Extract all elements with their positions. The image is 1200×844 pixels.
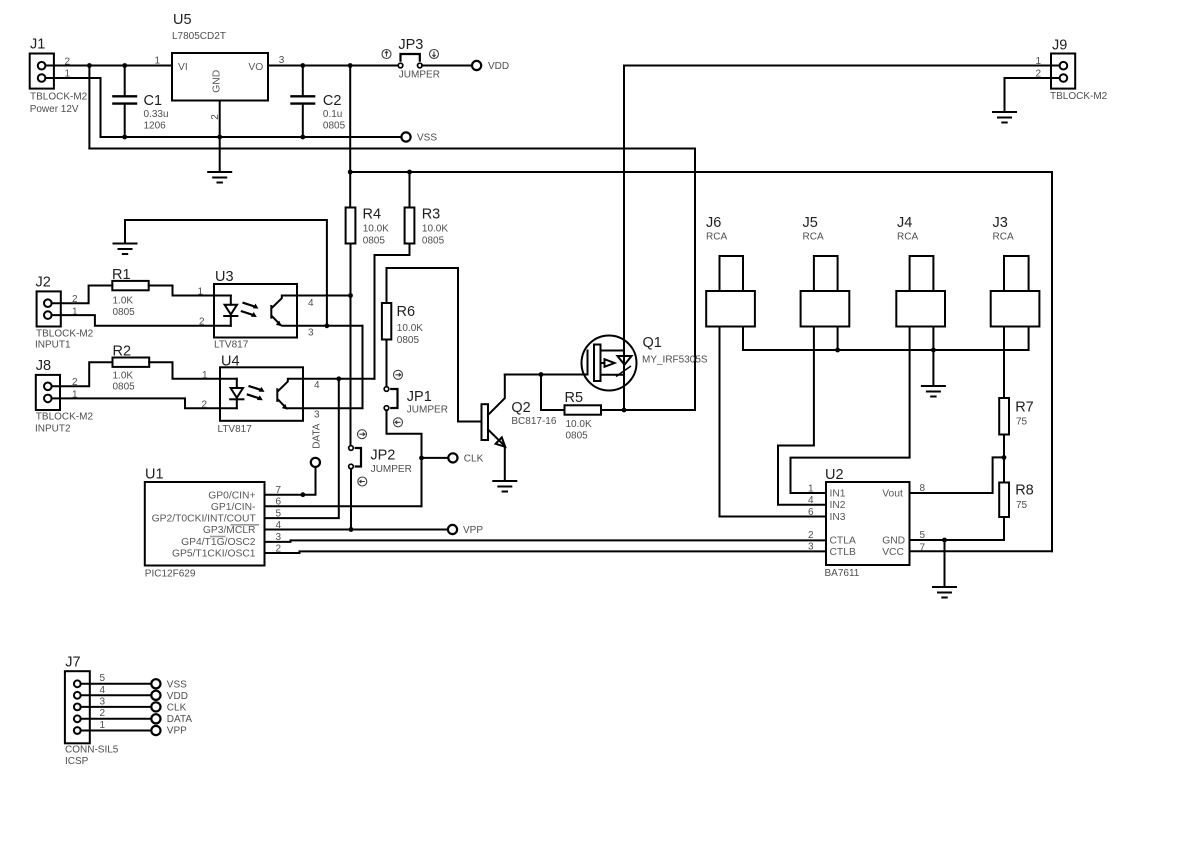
wire R2 to U4 pin1	[149, 362, 220, 379]
svg-text:IN3: IN3	[830, 512, 846, 523]
wire +12V down to Q1 source	[694, 149, 696, 411]
transistor Q1	[582, 335, 708, 391]
IC U2 BA7611	[825, 467, 910, 579]
svg-text:0.1u: 0.1u	[323, 109, 342, 120]
svg-text:J2: J2	[36, 275, 51, 291]
jumper JP1 right-arrow marker	[394, 370, 403, 379]
svg-text:MY_IRF5305S: MY_IRF5305S	[642, 354, 708, 365]
svg-text:JP2: JP2	[370, 447, 395, 463]
wire Q1 drain rail	[623, 66, 625, 411]
svg-text:1: 1	[99, 720, 105, 731]
svg-text:4: 4	[275, 520, 281, 531]
junction +5V tap	[348, 63, 353, 68]
svg-text:U5: U5	[173, 12, 192, 28]
junction J5 shield	[835, 348, 840, 353]
svg-text:10.0K: 10.0K	[566, 419, 592, 430]
wire U5 GND pin down	[219, 101, 221, 172]
node VDD at J7	[151, 691, 188, 702]
resistor R8	[999, 482, 1034, 517]
svg-text:0805: 0805	[422, 235, 445, 246]
wire +12V down from junction	[88, 66, 90, 149]
junction C2 top	[300, 63, 305, 68]
connector J4	[896, 215, 945, 327]
svg-text:R6: R6	[397, 304, 416, 320]
svg-text:JUMPER: JUMPER	[407, 405, 448, 416]
jumper JP3 down-arrow marker	[430, 50, 439, 59]
svg-text:J6: J6	[706, 215, 721, 231]
connector J9	[1050, 38, 1108, 103]
svg-text:1: 1	[808, 484, 814, 495]
wire U4 pin4 to R3 net	[303, 378, 375, 380]
wire shield bus	[743, 327, 1029, 351]
resistor R7	[999, 398, 1034, 435]
wire U3 pin4 to R4 net	[297, 295, 351, 297]
svg-text:CLK: CLK	[167, 702, 187, 713]
connector J2	[35, 275, 94, 351]
wire J8 pin2 to R2	[52, 362, 113, 386]
svg-text:R7: R7	[1015, 399, 1034, 415]
resistor R5	[565, 390, 602, 441]
svg-text:Q2: Q2	[511, 400, 530, 416]
wire J7 pin3 to CLK	[81, 706, 152, 708]
wire R7 bottom stub	[1003, 435, 1005, 458]
resistor R2	[113, 344, 150, 393]
svg-text:R4: R4	[363, 207, 382, 223]
svg-text:TBLOCK-M2: TBLOCK-M2	[1050, 91, 1108, 102]
wire J7 pin1 to VPP	[81, 730, 152, 732]
junction MCLR / JP2	[349, 527, 354, 532]
svg-text:2: 2	[99, 708, 105, 719]
svg-text:VDD: VDD	[167, 691, 188, 702]
svg-text:DATA: DATA	[312, 423, 323, 449]
wire J2 pin1 to U3 pin2	[52, 315, 214, 326]
regulator U5	[172, 12, 268, 101]
wire J4 shield stub	[932, 327, 934, 351]
ground under U2	[933, 587, 956, 598]
wire GP1 net to U1 pin6	[265, 505, 422, 507]
wire J1 pin2 to U5 VI (+12V)	[45, 65, 172, 67]
svg-text:TBLOCK-M2: TBLOCK-M2	[36, 412, 94, 423]
svg-text:2: 2	[199, 317, 205, 328]
svg-text:GP2/T0CKI/INT/COUT: GP2/T0CKI/INT/COUT	[152, 514, 257, 525]
junction U4 pin4 / GP2 net	[336, 376, 341, 381]
svg-text:J8: J8	[36, 358, 51, 374]
svg-text:0805: 0805	[363, 235, 386, 246]
wire R8 bottom to U2 GND	[910, 517, 1005, 540]
svg-text:1: 1	[1035, 56, 1041, 67]
svg-text:75: 75	[1016, 417, 1028, 428]
svg-text:JUMPER: JUMPER	[399, 70, 440, 81]
wire Q2 collector to Q1 gate	[505, 374, 588, 376]
node CLK	[448, 453, 483, 464]
wire R6 bottom to JP1	[386, 340, 388, 387]
junction CLK stub	[419, 456, 424, 461]
optocoupler U4	[218, 353, 304, 435]
svg-text:TBLOCK-M2: TBLOCK-M2	[30, 91, 88, 102]
wire JP1 to CLK/GP1 net	[387, 410, 422, 506]
ground under U5	[208, 172, 231, 183]
junction +5V rail at R4	[348, 170, 353, 175]
wire Q1 drain to J9 pin1	[624, 65, 1060, 67]
wire +5V to U2 VCC	[910, 550, 1053, 552]
wire shield bus ground stub	[932, 350, 934, 386]
svg-text:CONN-SIL5: CONN-SIL5	[65, 744, 119, 755]
svg-text:6: 6	[275, 497, 281, 508]
svg-text:GND: GND	[212, 70, 223, 93]
svg-text:1.0K: 1.0K	[113, 370, 134, 381]
junction R7/R8/Vout	[1002, 455, 1007, 460]
svg-text:10.0K: 10.0K	[422, 224, 448, 235]
jumper JP1 left-arrow marker	[394, 418, 403, 427]
svg-text:3: 3	[99, 696, 105, 707]
svg-text:2: 2	[201, 399, 207, 410]
wire ground net down to U4 pin3	[303, 326, 363, 408]
node VPP at J7	[151, 726, 187, 737]
svg-text:GP1/CIN-: GP1/CIN-	[211, 502, 256, 513]
wire R3 top stub	[409, 172, 411, 208]
svg-text:0805: 0805	[566, 430, 589, 441]
svg-text:VPP: VPP	[463, 525, 483, 536]
svg-text:U2: U2	[825, 467, 844, 483]
svg-text:R8: R8	[1015, 482, 1034, 498]
optocoupler U3	[214, 269, 297, 351]
svg-text:5: 5	[275, 508, 281, 519]
svg-text:TBLOCK-M2: TBLOCK-M2	[36, 328, 94, 339]
wire GND rail to VSS	[101, 136, 402, 138]
svg-text:GP4/T1G/OSC2: GP4/T1G/OSC2	[181, 537, 256, 548]
junction U3 pin3 / ground bus	[325, 323, 330, 328]
svg-text:BC817-16: BC817-16	[511, 416, 556, 427]
node CLK at J7	[151, 702, 186, 713]
svg-text:J7: J7	[65, 654, 80, 670]
svg-text:C2: C2	[323, 93, 342, 109]
svg-text:10.0K: 10.0K	[397, 323, 423, 334]
svg-text:3: 3	[308, 327, 314, 338]
svg-text:VO: VO	[248, 62, 263, 73]
ground for optocouplers	[114, 244, 137, 255]
wire R3 bottom to U4 pin4	[375, 244, 410, 379]
junction C2 bottom	[300, 135, 305, 140]
svg-text:VDD: VDD	[488, 61, 509, 72]
wire +5V rail down right side	[1051, 172, 1053, 551]
svg-text:LTV817: LTV817	[218, 424, 253, 435]
svg-text:CTLA: CTLA	[830, 536, 856, 547]
node DATA	[311, 423, 323, 467]
svg-text:0805: 0805	[397, 335, 420, 346]
wire JP2 to MCLR net	[350, 469, 352, 530]
svg-text:BA7611: BA7611	[825, 568, 860, 579]
wire J5 shield stub	[837, 327, 839, 351]
wire J8 pin1 to U4 pin2	[52, 398, 220, 408]
svg-text:0805: 0805	[113, 307, 136, 318]
jumper JP3 up-arrow marker	[382, 50, 391, 59]
connector J1	[30, 36, 88, 115]
svg-text:RCA: RCA	[706, 232, 727, 243]
svg-text:U1: U1	[145, 467, 164, 483]
svg-text:ICSP: ICSP	[65, 756, 89, 767]
jumper JP1	[384, 387, 448, 416]
wire JP3 to VDD	[422, 65, 472, 67]
wire J9 pin2 to ground	[1005, 78, 1060, 112]
junction DATA stub	[301, 492, 306, 497]
svg-text:3: 3	[279, 55, 285, 66]
resistor R1	[112, 267, 149, 318]
svg-text:J3: J3	[993, 215, 1008, 231]
svg-text:Vout: Vout	[882, 488, 903, 499]
junction U5 GND on rail	[217, 135, 222, 140]
svg-text:7: 7	[920, 543, 926, 554]
svg-text:3: 3	[808, 542, 814, 553]
svg-text:GP0/CIN+: GP0/CIN+	[208, 490, 255, 501]
svg-text:JUMPER: JUMPER	[371, 464, 412, 475]
node VSS at J7	[151, 679, 187, 690]
junction U2 GND ground stub	[942, 538, 947, 543]
jumper JP2 left-arrow marker	[358, 477, 367, 486]
wire +5V down to R4/rail	[349, 66, 351, 208]
svg-text:DATA: DATA	[167, 714, 193, 725]
junction gate / R5	[539, 372, 544, 377]
svg-text:Power 12V: Power 12V	[30, 104, 79, 115]
junction U3 pin4 / R4	[348, 293, 353, 298]
node VSS	[401, 132, 437, 143]
wire R5 to +12V	[601, 409, 695, 411]
svg-text:0805: 0805	[113, 382, 136, 393]
capacitor C1	[112, 66, 168, 138]
svg-text:RCA: RCA	[993, 232, 1014, 243]
ground under J9	[993, 112, 1016, 123]
wire J7 pin5 to VSS	[81, 683, 152, 685]
wire J3 center to R7	[1003, 327, 1005, 399]
svg-text:0805: 0805	[323, 121, 346, 132]
svg-text:L7805CD2T: L7805CD2T	[172, 31, 226, 42]
svg-text:VI: VI	[178, 62, 188, 73]
svg-text:1206: 1206	[144, 121, 167, 132]
wire J4 center to U2 IN1	[791, 327, 910, 494]
resistor R3	[405, 207, 449, 247]
wire ground stub U2	[944, 540, 946, 587]
svg-text:2: 2	[808, 530, 814, 541]
resistor R6	[382, 303, 423, 346]
svg-text:1: 1	[202, 370, 208, 381]
ground under Q2	[493, 481, 516, 492]
svg-text:LTV817: LTV817	[214, 340, 249, 351]
junction Q1 source / +12V	[622, 408, 627, 413]
svg-text:R5: R5	[565, 390, 584, 406]
svg-text:J1: J1	[30, 36, 45, 52]
node VDD	[472, 61, 509, 72]
wire +12V horizontal rail	[89, 148, 695, 150]
ground for RCA shields	[922, 386, 945, 397]
connector J7	[65, 654, 119, 767]
svg-text:GND: GND	[882, 536, 905, 547]
junction +12V at x=89	[87, 63, 92, 68]
svg-text:JP1: JP1	[407, 389, 432, 405]
connector J5	[801, 215, 850, 327]
wire J7 pin2 to DATA	[81, 718, 152, 720]
wire R8 top stub	[1003, 457, 1005, 482]
jumper JP3	[398, 37, 440, 81]
svg-text:PIC12F629: PIC12F629	[145, 569, 196, 580]
svg-text:VCC: VCC	[882, 547, 904, 558]
svg-text:IN1: IN1	[830, 488, 846, 499]
svg-text:CTLB: CTLB	[830, 547, 856, 558]
capacitor C2	[290, 66, 345, 138]
svg-text:J9: J9	[1052, 38, 1067, 54]
svg-text:C1: C1	[144, 93, 163, 109]
wire R6 top to Q2 base	[387, 268, 482, 422]
svg-text:GP3/MCLR: GP3/MCLR	[203, 525, 256, 536]
svg-text:5: 5	[99, 673, 105, 684]
node VPP	[448, 525, 483, 536]
wire J6 center to U2 IN3	[720, 327, 827, 517]
junction C1 top	[122, 63, 127, 68]
wire U1 pin4 to VPP	[265, 529, 448, 531]
resistor R4	[346, 207, 390, 247]
svg-text:4: 4	[99, 685, 105, 696]
svg-text:1: 1	[197, 286, 203, 297]
wire GP2 net down to U1 pin5	[265, 379, 339, 518]
wire Vout to divider	[910, 457, 1005, 493]
IC U1 PIC12F629	[145, 467, 265, 580]
wire +5V rail right	[350, 171, 1052, 173]
svg-text:VSS: VSS	[167, 679, 187, 690]
svg-text:1: 1	[154, 56, 160, 67]
wire J2 pin2 to R1	[52, 286, 113, 304]
svg-text:1.0K: 1.0K	[113, 295, 134, 306]
svg-text:4: 4	[808, 495, 814, 506]
svg-text:8: 8	[920, 483, 926, 494]
connector J6	[706, 215, 755, 327]
svg-text:RCA: RCA	[897, 232, 918, 243]
wire R5 left drop	[541, 375, 565, 411]
svg-text:GP5/T1CKI/OSC1: GP5/T1CKI/OSC1	[172, 549, 256, 560]
svg-text:R1: R1	[112, 267, 131, 283]
wire J7 pin4 to VDD	[81, 694, 152, 696]
svg-text:JP3: JP3	[398, 37, 423, 53]
transistor Q2	[482, 375, 557, 481]
svg-text:VSS: VSS	[417, 132, 437, 143]
wire R4 bottom to JP2	[350, 244, 352, 446]
wire CLK stub	[422, 457, 449, 459]
svg-text:75: 75	[1016, 500, 1028, 511]
wire J5 center to U2 IN2	[778, 327, 826, 505]
wire U1 pin7 to DATA	[265, 467, 316, 495]
svg-text:5: 5	[920, 530, 926, 541]
svg-text:J4: J4	[897, 215, 912, 231]
svg-text:VPP: VPP	[167, 726, 187, 737]
svg-text:INPUT2: INPUT2	[35, 423, 71, 434]
wire U5 VO to JP3 (+5V)	[268, 65, 398, 67]
wire R1 to U3 pin1	[149, 286, 214, 296]
junction C1 bottom	[122, 135, 127, 140]
wire U3 pin3 to ground bus	[297, 325, 363, 327]
node DATA at J7	[151, 714, 192, 725]
connector J3	[991, 215, 1040, 327]
junction J4 shield	[931, 348, 936, 353]
svg-text:RCA: RCA	[803, 232, 824, 243]
svg-text:U3: U3	[215, 269, 234, 285]
svg-text:6: 6	[808, 507, 814, 518]
svg-text:10.0K: 10.0K	[363, 224, 389, 235]
svg-text:J5: J5	[803, 215, 818, 231]
jumper JP2 right-arrow marker	[358, 430, 367, 439]
svg-text:0.33u: 0.33u	[144, 109, 169, 120]
svg-text:R2: R2	[113, 344, 132, 360]
wire opto ground bus	[125, 220, 327, 326]
jumper JP2	[349, 446, 412, 475]
svg-text:IN2: IN2	[830, 500, 846, 511]
junction +5V rail at R3	[407, 170, 412, 175]
svg-text:CLK: CLK	[464, 454, 484, 465]
connector J8	[35, 358, 93, 434]
svg-text:R3: R3	[422, 207, 441, 223]
svg-text:4: 4	[314, 380, 320, 391]
svg-text:3: 3	[314, 410, 320, 421]
wire U1 pin3 GP4 to U2 CTLA	[265, 540, 827, 542]
svg-text:4: 4	[308, 298, 314, 309]
wire U1 pin2 GP5 to U2 CTLB	[265, 551, 827, 553]
svg-text:7: 7	[275, 485, 281, 496]
svg-text:U4: U4	[221, 353, 240, 369]
svg-text:INPUT1: INPUT1	[35, 340, 71, 351]
wire J1 pin1 ground feed	[45, 78, 100, 137]
svg-text:Q1: Q1	[643, 335, 662, 351]
